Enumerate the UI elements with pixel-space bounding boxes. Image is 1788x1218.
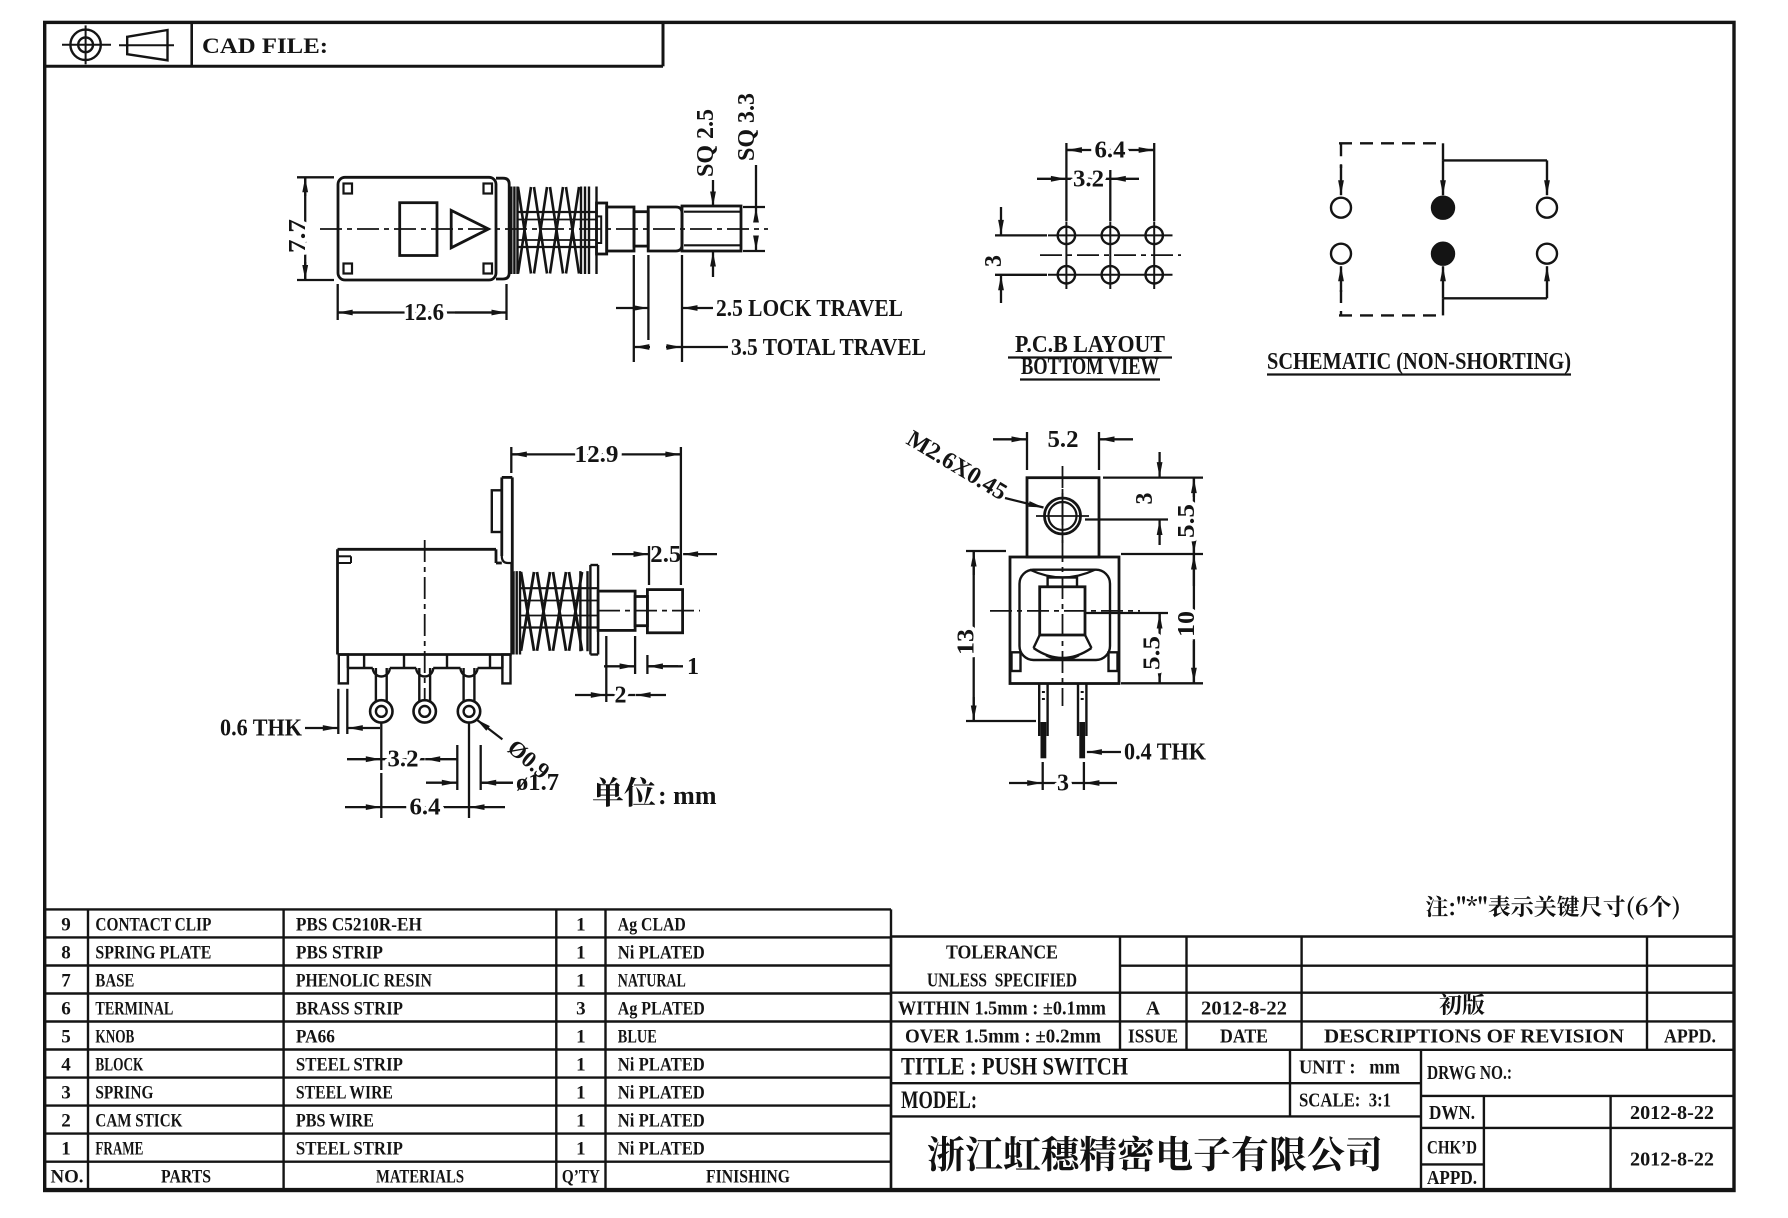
units note <box>593 777 655 807</box>
dim 3.2 side <box>347 723 458 773</box>
svg-text:3.2: 3.2 <box>388 747 419 773</box>
right foot <box>502 655 510 684</box>
svg-text:3: 3 <box>981 255 1007 267</box>
dim 3.2 pcb <box>1037 166 1139 221</box>
svg-text:PARTS: PARTS <box>161 1167 211 1188</box>
svg-text:Ni PLATED: Ni PLATED <box>618 1111 705 1132</box>
svg-text:STEEL STRIP: STEEL STRIP <box>296 1055 403 1076</box>
dim dia 0.9 leader <box>476 719 554 784</box>
svg-text:Ag CLAD: Ag CLAD <box>618 914 686 935</box>
terminal 1 <box>370 668 392 723</box>
svg-text:NATURAL: NATURAL <box>618 971 686 992</box>
svg-text:CONTACT CLIP: CONTACT CLIP <box>95 914 211 935</box>
svg-text:2012-8-22: 2012-8-22 <box>1630 1102 1714 1124</box>
svg-text:2.5: 2.5 <box>650 542 681 568</box>
svg-text:5.5: 5.5 <box>1140 636 1166 670</box>
svg-text:0.6 THK: 0.6 THK <box>220 716 302 742</box>
side view center dash line <box>424 540 426 700</box>
parts table rows <box>61 914 705 1159</box>
schematic terminal circles open <box>1331 198 1557 264</box>
svg-text:TITLE : PUSH SWITCH: TITLE : PUSH SWITCH <box>901 1054 1128 1081</box>
projection symbol (cone) <box>119 30 174 60</box>
svg-text:ISSUE: ISSUE <box>1128 1027 1178 1048</box>
svg-text:CAD FILE:: CAD FILE: <box>202 33 328 58</box>
svg-text:1: 1 <box>576 1027 586 1048</box>
svg-text:SCALE: 3:1: SCALE: 3:1 <box>1299 1090 1391 1112</box>
svg-text:APPD.: APPD. <box>1664 1027 1716 1048</box>
svg-text:SPRING: SPRING <box>95 1083 153 1104</box>
side centerline <box>598 610 700 612</box>
svg-text:3: 3 <box>61 1083 71 1104</box>
key dims note <box>1426 895 1679 919</box>
pcb centerline <box>1040 254 1181 256</box>
svg-text:2: 2 <box>615 683 627 709</box>
svg-text:PBS WIRE: PBS WIRE <box>296 1111 374 1132</box>
svg-text:PA66: PA66 <box>296 1027 335 1048</box>
svg-text:1: 1 <box>576 942 586 963</box>
svg-text:DATE: DATE <box>1220 1027 1268 1048</box>
svg-text:Ni PLATED: Ni PLATED <box>618 1139 705 1160</box>
plunger section 3 <box>648 207 682 251</box>
svg-text:SCHEMATIC (NON-SHORTING): SCHEMATIC (NON-SHORTING) <box>1267 349 1571 375</box>
dim SQ 3.3 <box>734 93 765 251</box>
dim 0.6 THK <box>220 689 380 742</box>
svg-text:12.6: 12.6 <box>404 300 444 326</box>
svg-text:3: 3 <box>1132 493 1158 505</box>
svg-text:8: 8 <box>61 942 71 963</box>
svg-text:BASE: BASE <box>95 971 134 992</box>
svg-text:MATERIALS: MATERIALS <box>376 1167 464 1188</box>
centerline top view <box>320 228 768 230</box>
pcb layout holes <box>1048 222 1173 290</box>
terminal 2 <box>414 668 436 723</box>
side spring <box>521 572 582 651</box>
svg-text:STEEL WIRE: STEEL WIRE <box>296 1083 393 1104</box>
dim 12.6 <box>338 284 507 326</box>
svg-text:3: 3 <box>576 999 586 1020</box>
front centerlines <box>990 466 1140 706</box>
plunger tab <box>597 216 602 243</box>
svg-text:SQ 3.3: SQ 3.3 <box>734 93 760 161</box>
schematic wire bottom right <box>1443 266 1550 298</box>
svg-text:Ag PLATED: Ag PLATED <box>618 999 705 1020</box>
svg-text:7.7: 7.7 <box>285 219 311 253</box>
parts table header <box>51 1167 791 1188</box>
svg-text:BOTTOM VIEW: BOTTOM VIEW <box>1021 354 1159 380</box>
schematic wire left bottom arrow <box>1340 266 1342 292</box>
spring washer 1 <box>511 187 517 275</box>
svg-text:BLOCK: BLOCK <box>95 1055 143 1076</box>
svg-text:ø1.7: ø1.7 <box>516 770 559 796</box>
svg-text:FRAME: FRAME <box>95 1139 143 1160</box>
svg-text:13: 13 <box>954 629 980 655</box>
svg-text:1: 1 <box>576 971 586 992</box>
svg-text:10: 10 <box>1174 611 1200 637</box>
dim 3 bottom <box>1009 762 1117 797</box>
svg-text:2012-8-22: 2012-8-22 <box>1630 1149 1714 1171</box>
svg-text:TERMINAL: TERMINAL <box>95 999 173 1020</box>
svg-text:6.4: 6.4 <box>410 795 441 821</box>
svg-text:SQ 2.5: SQ 2.5 <box>693 109 719 177</box>
svg-text:UNIT : mm: UNIT : mm <box>1299 1057 1400 1079</box>
svg-text:12.9: 12.9 <box>575 442 619 468</box>
tolerance text <box>898 943 1106 1048</box>
svg-text:1: 1 <box>687 654 699 680</box>
svg-text:: mm: : mm <box>658 781 717 810</box>
schematic dashed frame <box>1339 143 1443 315</box>
terminal 3 <box>458 668 480 723</box>
revision row A <box>1146 994 1485 1020</box>
svg-text:Ni PLATED: Ni PLATED <box>618 942 705 963</box>
side clips <box>1012 652 1118 671</box>
side cam band <box>520 588 598 627</box>
svg-text:5: 5 <box>61 1027 71 1048</box>
base teeth row <box>348 655 503 677</box>
dim 3.5 TOTAL TRAVEL <box>634 255 926 362</box>
dim 3 pcb <box>981 207 1047 303</box>
parts table grid <box>45 909 891 1189</box>
dim 13 <box>954 551 1036 721</box>
flange cap <box>496 178 509 279</box>
schematic wire top right <box>1443 160 1550 195</box>
schematic wire center top arrow <box>1440 143 1446 195</box>
dim 0.4 THK <box>1087 740 1206 766</box>
svg-text:SPRING PLATE: SPRING PLATE <box>95 942 211 963</box>
cam stick triangle <box>451 210 488 247</box>
svg-text:PHENOLIC RESIN: PHENOLIC RESIN <box>296 971 432 992</box>
dim 3 front <box>1085 452 1203 545</box>
side view body outline <box>338 549 512 654</box>
side view top-left notch <box>338 556 352 563</box>
svg-text:WITHIN 1.5mm : ±0.1mm: WITHIN 1.5mm : ±0.1mm <box>898 999 1106 1020</box>
svg-text:1: 1 <box>61 1139 71 1160</box>
svg-text:CHK’D: CHK’D <box>1427 1138 1477 1159</box>
top view: switch frame body <box>338 177 496 280</box>
dim 6.4 pcb <box>1066 138 1154 222</box>
title block grid <box>891 1050 1734 1190</box>
side plunger section <box>598 591 635 630</box>
first-angle projection symbol (circle) <box>62 25 111 64</box>
corner notches <box>344 184 493 274</box>
plunger section 2 <box>607 207 634 251</box>
svg-text:KNOB: KNOB <box>95 1027 134 1048</box>
left foot <box>339 655 348 684</box>
tolerance box <box>891 937 1734 1190</box>
svg-text:BRASS STRIP: BRASS STRIP <box>296 999 403 1020</box>
svg-text:0.4 THK: 0.4 THK <box>1124 740 1206 766</box>
svg-text:UNLESS SPECIFIED: UNLESS SPECIFIED <box>927 971 1077 992</box>
schematic wire left top arrow <box>1340 165 1342 195</box>
svg-text:3.2: 3.2 <box>1073 166 1104 192</box>
svg-text:PBS STRIP: PBS STRIP <box>296 942 383 963</box>
svg-text:MODEL:: MODEL: <box>901 1087 977 1114</box>
svg-text:9: 9 <box>61 914 71 935</box>
cam shaft band through spring <box>518 212 597 247</box>
svg-text:PBS C5210R-EH: PBS C5210R-EH <box>296 914 422 935</box>
spring washer 2 <box>581 187 597 275</box>
svg-text:DWN.: DWN. <box>1429 1102 1475 1124</box>
company name <box>928 1136 1380 1172</box>
side plunger neck <box>635 597 647 626</box>
svg-text:DRWG NO.:: DRWG NO.: <box>1427 1062 1512 1084</box>
svg-text:1: 1 <box>576 1111 586 1132</box>
svg-text:Ni PLATED: Ni PLATED <box>618 1055 705 1076</box>
dim 6.4 side <box>345 723 505 821</box>
svg-text:5.5: 5.5 <box>1174 504 1200 538</box>
svg-text:APPD.: APPD. <box>1427 1167 1477 1189</box>
bracket tab (side) <box>492 490 502 532</box>
dim 2 side <box>575 636 666 709</box>
dim 5.5 lower <box>1085 613 1168 683</box>
svg-text:6.4: 6.4 <box>1095 138 1126 164</box>
svg-text:2012-8-22: 2012-8-22 <box>1201 999 1287 1020</box>
svg-text:4: 4 <box>61 1055 71 1076</box>
schematic wire center bottom arrow <box>1440 266 1446 315</box>
knob front <box>1040 578 1085 636</box>
svg-text:1: 1 <box>576 1055 586 1076</box>
side spring washer 1 <box>514 571 521 654</box>
svg-text:CAM STICK: CAM STICK <box>95 1111 182 1132</box>
side knob tip <box>647 590 682 633</box>
svg-text:2: 2 <box>61 1111 71 1132</box>
front legs <box>1039 684 1086 759</box>
spring (top view) <box>518 187 579 274</box>
mounting bracket plate (side) <box>502 477 513 571</box>
svg-text:TOLERANCE: TOLERANCE <box>946 943 1058 964</box>
knob lower taper <box>1034 635 1092 660</box>
revision header <box>1128 1027 1716 1048</box>
front body <box>1010 557 1119 684</box>
header box <box>45 22 663 66</box>
dim 2.5 side <box>612 542 717 585</box>
dim SQ 2.5 <box>693 109 719 277</box>
svg-text:7: 7 <box>61 971 71 992</box>
svg-text:BLUE: BLUE <box>618 1027 657 1048</box>
svg-text:STEEL STRIP: STEEL STRIP <box>296 1139 403 1160</box>
svg-text:1: 1 <box>576 1139 586 1160</box>
svg-text:NO.: NO. <box>51 1167 84 1188</box>
svg-text:A: A <box>1146 999 1160 1020</box>
svg-text:OVER 1.5mm : ±0.2mm: OVER 1.5mm : ±0.2mm <box>905 1027 1101 1048</box>
dim 7.7 <box>285 177 334 280</box>
svg-text:6: 6 <box>61 999 71 1020</box>
plunger neck <box>634 212 648 246</box>
dim 10 <box>1121 554 1203 683</box>
knob tip (square shaft) <box>682 206 741 251</box>
svg-text:Ni PLATED: Ni PLATED <box>618 1083 705 1104</box>
dim dia 1.7 <box>426 745 559 796</box>
front bracket <box>1027 478 1099 557</box>
dim 2.5 LOCK TRAVEL <box>616 255 903 362</box>
svg-text:FINISHING: FINISHING <box>706 1167 790 1188</box>
dim 5.2 <box>993 427 1133 470</box>
svg-text:1: 1 <box>576 1083 586 1104</box>
svg-text:5.2: 5.2 <box>1048 427 1079 453</box>
plunger section 1 <box>597 203 607 254</box>
side spring washer 2 <box>580 565 598 655</box>
knob tip inner edges <box>684 212 741 246</box>
svg-text:3: 3 <box>1057 771 1069 797</box>
side body right edge <box>510 563 513 655</box>
dim 1 side <box>604 636 699 680</box>
dim 12.9 <box>511 442 681 585</box>
svg-text:3.5 TOTAL TRAVEL: 3.5 TOTAL TRAVEL <box>731 335 926 361</box>
inner square hole <box>400 203 437 256</box>
schematic common terminals filled <box>1432 197 1454 265</box>
label M2.6X0.45 <box>902 426 1044 508</box>
front inner frame <box>1020 570 1111 660</box>
svg-text:Q’TY: Q’TY <box>562 1167 600 1188</box>
screw hole M2.6 <box>1036 489 1089 543</box>
svg-text:2.5 LOCK TRAVEL: 2.5 LOCK TRAVEL <box>716 296 903 322</box>
dim 5.5 top <box>1121 478 1203 554</box>
svg-text:1: 1 <box>576 914 586 935</box>
inner top arc <box>1030 570 1095 578</box>
svg-text:DESCRIPTIONS OF REVISION: DESCRIPTIONS OF REVISION <box>1324 1027 1624 1048</box>
